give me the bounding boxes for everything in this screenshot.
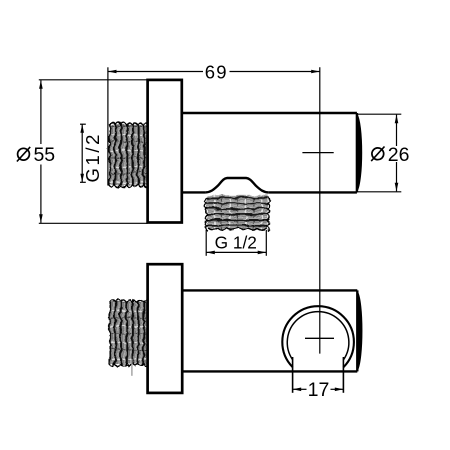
svg-text:69: 69 <box>205 61 228 82</box>
outlet thread (middle) <box>204 195 268 230</box>
dimension Ø55: text <box>17 144 55 166</box>
dimension Ø26: line and arrows <box>395 115 399 192</box>
holder ring outer arc (bottom view) <box>282 306 354 367</box>
svg-text:G1/2: G1/2 <box>82 132 103 183</box>
svg-text:55: 55 <box>33 144 55 166</box>
inlet thread (top view) <box>108 122 149 187</box>
dimension G1/2 (inlet): ticks, line, arrows <box>80 124 86 182</box>
dimension Ø26: text <box>371 144 409 166</box>
holder ring inner arc (bottom view) <box>287 312 349 360</box>
dimension G 1/2 (outlet): extension lines <box>206 230 266 256</box>
dimension 69: line and arrows <box>108 70 320 74</box>
centre cross (bottom view) <box>305 337 334 339</box>
stray mark under thread (bottom view) <box>131 359 133 376</box>
inlet thread (bottom view) <box>108 299 149 365</box>
svg-text:G 1/2: G 1/2 <box>215 232 257 252</box>
svg-text:26: 26 <box>388 144 410 166</box>
body (top view) <box>182 113 357 192</box>
wall flange (bottom view) <box>148 264 183 393</box>
svg-text:17: 17 <box>308 379 330 401</box>
dimension 69: extension lines <box>108 67 320 353</box>
end cap (bottom view) <box>357 290 362 371</box>
dimension Ø26: extension lines <box>357 114 401 192</box>
dimension G 1/2 (outlet): line and arrows <box>206 251 266 255</box>
dimension Ø55: extension lines <box>39 80 148 224</box>
body (bottom view) <box>182 290 357 371</box>
dimension 17: line and arrows <box>293 388 344 392</box>
dimension Ø55: line and arrows <box>39 80 43 223</box>
outlet boss bump (top view) <box>205 178 268 192</box>
holder slot walls / 17 extension lines <box>293 357 344 393</box>
wall flange (top view) <box>148 80 182 223</box>
end cap (top view) <box>357 113 362 192</box>
centre cross (top view) <box>302 152 333 154</box>
